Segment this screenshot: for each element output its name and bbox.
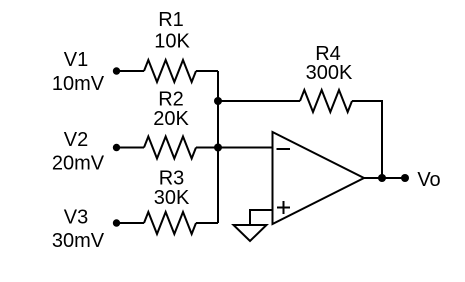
svg-text:R1: R1 xyxy=(158,9,184,31)
svg-text:20mV: 20mV xyxy=(52,153,105,175)
svg-text:10K: 10K xyxy=(154,31,190,53)
node V1 xyxy=(113,67,120,74)
junction (inverting input node) xyxy=(214,144,222,152)
wire xyxy=(196,70,218,72)
wire (feedback left) xyxy=(218,100,300,102)
svg-text:V3: V3 xyxy=(64,207,88,229)
wire (feedback right and drop to output) xyxy=(352,101,382,178)
svg-text:10mV: 10mV xyxy=(52,73,105,95)
op-amp non-inverting pin (plus) xyxy=(277,201,290,214)
junction (output node) xyxy=(378,174,386,182)
wire xyxy=(196,222,218,224)
node V3 xyxy=(113,219,120,226)
svg-text:V1: V1 xyxy=(64,49,88,71)
node V2 xyxy=(113,144,120,151)
svg-text:Vo: Vo xyxy=(417,169,440,191)
wire xyxy=(117,70,145,72)
wire (summing node vertical bus) xyxy=(217,71,219,223)
resistor R1 xyxy=(144,60,196,82)
resistor R3 xyxy=(144,212,196,234)
wire (non-inverting input to ground) xyxy=(250,210,273,225)
ground xyxy=(234,225,267,241)
svg-text:30K: 30K xyxy=(154,187,190,209)
wire xyxy=(117,222,145,224)
wire xyxy=(196,147,218,149)
svg-text:20K: 20K xyxy=(153,108,189,130)
op-amp inverting pin (minus) xyxy=(277,148,291,150)
op-amp U1 xyxy=(273,132,365,224)
junction (feedback tap) xyxy=(214,97,222,105)
resistor R4 xyxy=(300,90,352,112)
node Vo terminal xyxy=(401,174,409,182)
svg-text:V2: V2 xyxy=(64,129,88,151)
resistor R2 xyxy=(144,137,196,159)
wire (to inverting input) xyxy=(218,147,273,149)
wire (output) xyxy=(364,177,405,179)
svg-text:30mV: 30mV xyxy=(52,230,105,252)
wire xyxy=(117,147,145,149)
svg-text:300K: 300K xyxy=(306,62,353,84)
